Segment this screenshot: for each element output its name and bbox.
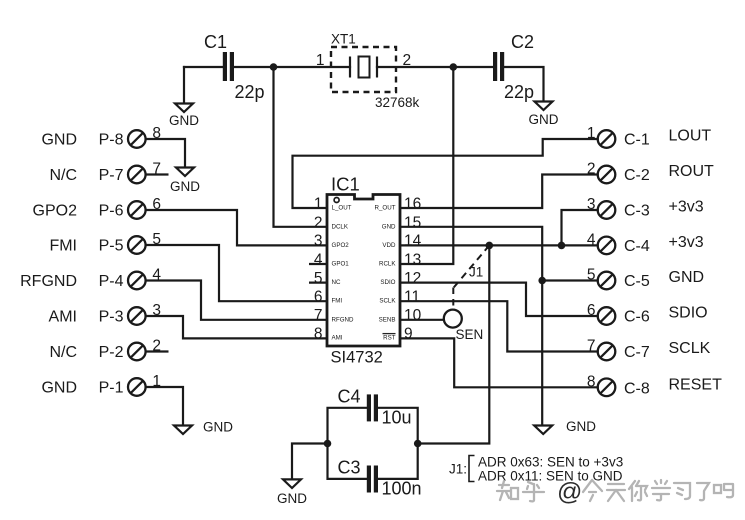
wire crystal right to C2 [377, 66, 493, 68]
char 今 [583, 480, 602, 501]
svg-text:C-6: C-6 [624, 309, 650, 326]
svg-text:AMI: AMI [49, 309, 77, 326]
wire IC pin 11 SCLK to C-7 [400, 301, 598, 351]
svg-text:IC1: IC1 [331, 174, 360, 195]
wire IC pin 15 GND down to ground [400, 227, 542, 425]
char 了 [697, 483, 709, 500]
ground (P-1) [174, 420, 233, 435]
junction C-5 / GND vertical [538, 277, 546, 285]
char 乎 [523, 482, 544, 501]
ground (C3/C4) [277, 479, 307, 506]
svg-text:16: 16 [404, 195, 421, 212]
svg-text:13: 13 [404, 251, 421, 268]
svg-text:GND: GND [170, 179, 200, 194]
wire IC pin 10 SENB to SEN point [400, 319, 444, 321]
svg-text:C3: C3 [338, 458, 361, 478]
svg-text:11: 11 [404, 289, 420, 306]
svg-text:GND: GND [41, 380, 77, 397]
svg-text:GND: GND [41, 132, 77, 149]
svg-text:FMI: FMI [332, 298, 343, 305]
crystal XT1 dashed box [331, 47, 396, 92]
capacitor C4 [367, 394, 378, 421]
wire VDD rail pin 14 to C-4 [400, 244, 598, 246]
capacitor C2 [493, 52, 504, 81]
svg-text:C-7: C-7 [624, 344, 650, 361]
wire C1 left terminal down to ground [183, 67, 185, 103]
connector pin P-5 [128, 236, 146, 254]
jumper J1 dashed link [453, 245, 489, 310]
connector pin P-7 [128, 166, 146, 184]
IC pin 5 stub (NC) [309, 282, 327, 284]
wire P-4 to IC pin 7 RFGND [146, 281, 327, 320]
wire C4 branch right [378, 408, 417, 444]
svg-text:NC: NC [332, 279, 341, 286]
svg-text:RESET: RESET [669, 376, 723, 393]
wire node A down to IC pin 2 DCLK [274, 67, 328, 227]
svg-text:C-1: C-1 [624, 132, 650, 149]
connector pin P-4 [128, 272, 146, 290]
svg-text:5: 5 [314, 270, 323, 287]
connector pin C-3 [598, 201, 616, 219]
svg-text:C-5: C-5 [624, 273, 650, 290]
svg-text:@: @ [557, 478, 582, 506]
svg-text:P-5: P-5 [99, 238, 124, 255]
svg-text:1: 1 [314, 195, 323, 212]
svg-text:GPO1: GPO1 [332, 261, 350, 268]
svg-text:P-6: P-6 [99, 203, 124, 220]
svg-text:3: 3 [314, 233, 323, 250]
svg-text:GND: GND [669, 269, 705, 286]
svg-text:6: 6 [314, 289, 323, 306]
wire P-6 to IC pin 3 GPO2 [146, 210, 327, 245]
svg-text:SCLK: SCLK [669, 340, 711, 357]
junction node A (C1 / XT1 / DCLK) [270, 63, 278, 71]
svg-text:C-8: C-8 [624, 380, 650, 397]
svg-text:10: 10 [404, 307, 422, 324]
svg-text:15: 15 [404, 214, 421, 231]
capacitor C1 [223, 52, 234, 81]
svg-text:N/C: N/C [49, 167, 77, 184]
svg-text:10u: 10u [382, 408, 412, 428]
svg-text:GPO2: GPO2 [332, 242, 350, 249]
svg-text:J1:: J1: [449, 462, 467, 477]
ground (C2 right) [529, 102, 559, 128]
stub P-2 [146, 350, 169, 352]
wire C-3 branch to VDD rail [562, 210, 598, 245]
connector pin C-1 [598, 130, 616, 148]
wire C3 branch left [328, 444, 369, 479]
wire cap left node to ground [292, 444, 328, 479]
svg-text:22p: 22p [235, 82, 265, 102]
connector pin C-6 [598, 307, 616, 325]
wire top rail left of C1 [184, 66, 223, 68]
connector pin P-3 [128, 307, 146, 325]
svg-text:DCLK: DCLK [332, 223, 349, 230]
svg-text:P-7: P-7 [99, 167, 124, 184]
svg-text:32768k: 32768k [375, 95, 420, 110]
svg-text:XT1: XT1 [331, 32, 356, 47]
wire P-3 to IC pin 8 AMI [146, 316, 327, 338]
svg-text:C-3: C-3 [624, 203, 650, 220]
IC internal pin names [332, 205, 397, 342]
svg-text:12: 12 [404, 270, 421, 287]
svg-text:L_OUT: L_OUT [332, 205, 352, 212]
svg-text:+3v3: +3v3 [669, 234, 704, 251]
svg-text:LOUT: LOUT [669, 128, 712, 145]
char 你 [629, 481, 647, 501]
svg-text:100n: 100n [382, 479, 422, 499]
svg-text:SI4732: SI4732 [331, 349, 383, 367]
svg-text:9: 9 [404, 326, 413, 343]
wire P-1 to ground [146, 387, 183, 425]
svg-text:14: 14 [404, 233, 422, 250]
svg-text:GND: GND [382, 223, 396, 230]
svg-text:ROUT: ROUT [669, 163, 715, 180]
junction cap right node [414, 440, 422, 448]
svg-text:N/C: N/C [49, 344, 77, 361]
svg-text:C2: C2 [511, 32, 534, 52]
svg-text:R_OUT: R_OUT [375, 205, 396, 212]
svg-text:ADR 0x63: SEN to +3v3: ADR 0x63: SEN to +3v3 [478, 455, 623, 470]
svg-text:+3v3: +3v3 [669, 199, 704, 216]
svg-text:GND: GND [169, 113, 199, 128]
svg-text:P-2: P-2 [99, 344, 124, 361]
char 吗 [714, 484, 733, 497]
wire P-8 to ground [146, 139, 185, 167]
ground (P-8) [170, 168, 200, 195]
svg-text:RFGND: RFGND [20, 273, 77, 290]
svg-text:VDD: VDD [382, 242, 396, 249]
wire C3 branch right [378, 444, 417, 479]
svg-text:GPO2: GPO2 [33, 203, 78, 220]
svg-text:J1: J1 [469, 265, 483, 280]
svg-text:SDIO: SDIO [380, 279, 395, 286]
connector pin P-8 [128, 130, 146, 148]
wire C1 to crystal junction [234, 66, 350, 68]
svg-text:C-2: C-2 [624, 167, 650, 184]
connector pin P-1 [128, 378, 146, 396]
svg-text:RST: RST [383, 334, 396, 341]
junction +3v3 / J1 [486, 242, 494, 250]
svg-text:SENB: SENB [379, 316, 396, 323]
connector pin C-8 [598, 379, 616, 397]
op-amp/IC body IC1 [327, 195, 400, 347]
svg-text:P-4: P-4 [99, 273, 124, 290]
svg-text:ADR 0x11: SEN to GND: ADR 0x11: SEN to GND [478, 469, 623, 484]
wire IC pin 16 R_OUT to C-2 [400, 175, 598, 209]
svg-text:GND: GND [529, 112, 559, 127]
svg-text:GND: GND [277, 491, 307, 506]
junction VDD rail / C-3 branch [558, 242, 566, 250]
svg-text:FMI: FMI [49, 238, 77, 255]
svg-text:2: 2 [314, 214, 323, 231]
svg-text:7: 7 [314, 307, 323, 324]
svg-text:8: 8 [314, 326, 323, 343]
svg-text:GND: GND [203, 420, 233, 435]
connector pin C-7 [598, 343, 616, 361]
svg-text:4: 4 [314, 251, 323, 268]
svg-text:C4: C4 [338, 387, 361, 407]
wire IC pin 12 SDIO to C-6 [400, 283, 598, 316]
junction node B (XT1 / C2 / RCLK) [450, 63, 458, 71]
bracket [469, 456, 475, 482]
svg-text:RFGND: RFGND [332, 316, 355, 323]
ground (IC pin 15 / C-5) [534, 419, 596, 434]
watermark 知乎 @今天你学习了吗 (drawn strokes, CJK font unavailable) [497, 478, 733, 506]
connector pin C-4 [598, 237, 616, 255]
ground (C1 left) [169, 104, 199, 129]
char 学 [652, 480, 670, 500]
svg-text:2: 2 [403, 52, 412, 69]
connector pin C-5 [598, 272, 616, 290]
svg-text:22p: 22p [504, 82, 534, 102]
char 天 [607, 484, 625, 501]
junction cap left node [324, 440, 332, 448]
char 知 [497, 481, 518, 500]
RST overline bar [383, 333, 396, 335]
wire C4 branch left [328, 408, 369, 444]
crystal XT1 symbol [350, 57, 377, 78]
svg-text:C1: C1 [204, 32, 227, 52]
wire IC pin 1 L_OUT loop to C-1 [293, 139, 598, 208]
connector pin P-6 [128, 201, 146, 219]
capacitor C3 [367, 466, 378, 493]
svg-text:AMI: AMI [332, 334, 343, 341]
wire +3v3 junction down to capacitor node [418, 245, 490, 443]
stub P-7 [146, 173, 169, 175]
svg-text:1: 1 [316, 52, 325, 69]
svg-text:RCLK: RCLK [379, 261, 396, 268]
svg-text:SDIO: SDIO [669, 305, 708, 322]
wire node B down to IC pin 13 RCLK [400, 67, 453, 264]
svg-text:GND: GND [566, 419, 596, 434]
svg-text:P-8: P-8 [99, 132, 124, 149]
wire C2 right then down to ground [504, 67, 543, 101]
svg-text:P-3: P-3 [99, 309, 124, 326]
wire C-5 to GND vertical [542, 279, 598, 281]
wire IC pin 9 RST to C-8 [400, 338, 598, 387]
wire P-5 to IC pin 6 FMI [146, 245, 327, 301]
SEN test point circle [444, 310, 462, 328]
char 习 [674, 483, 690, 499]
svg-text:SEN: SEN [456, 327, 484, 342]
connector pin C-2 [598, 166, 616, 184]
svg-text:C-4: C-4 [624, 238, 650, 255]
svg-text:SCLK: SCLK [379, 298, 396, 305]
svg-text:P-1: P-1 [99, 380, 124, 397]
IC pin 4 stub (GPO1, n/c) [309, 263, 327, 265]
connector pin P-2 [128, 343, 146, 361]
